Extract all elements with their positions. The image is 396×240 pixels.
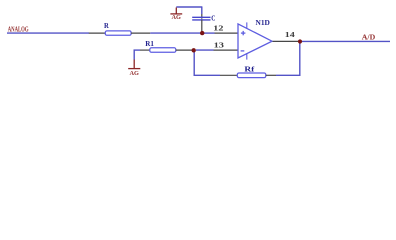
junction node pin13	[192, 48, 196, 52]
svg-text:AG: AG	[130, 70, 139, 77]
wire ANALOG input	[7, 32, 89, 34]
op-amp + input mark	[241, 31, 246, 35]
wire R to node	[150, 32, 202, 34]
junction node output	[298, 39, 302, 43]
power port AG bottom	[128, 60, 140, 69]
resistor R1	[150, 48, 176, 53]
resistor Rf	[237, 73, 265, 78]
svg-text:N1D: N1D	[256, 20, 270, 27]
pin 12 wire	[215, 32, 239, 34]
pin Rf.1	[220, 74, 237, 76]
wire R1 left corner	[134, 49, 141, 51]
pin R1.1	[140, 49, 150, 51]
pin Rf.2	[266, 74, 276, 76]
wire feedback bottom right	[276, 74, 301, 76]
pin 14 wire	[273, 40, 300, 42]
svg-text:C: C	[211, 15, 215, 23]
pin R.2	[131, 32, 150, 34]
pin R.1	[89, 32, 106, 34]
svg-text:13: 13	[214, 41, 225, 50]
wire feedback down from node 13	[193, 52, 195, 75]
pin C.1	[201, 14, 203, 17]
wire feedback up to output node	[299, 42, 301, 76]
wire capacitor drop	[201, 6, 203, 14]
op-amp V- stub	[246, 53, 248, 59]
pin 13 wire	[214, 49, 239, 51]
wire AG to capacitor top	[176, 6, 202, 8]
op-amp V+ stub	[246, 22, 248, 28]
resistor R	[105, 31, 131, 35]
svg-text:R1: R1	[145, 40, 154, 48]
power port AG top	[170, 8, 182, 14]
wire node to pin 13	[196, 49, 214, 51]
capacitor C	[192, 17, 210, 20]
wire R1 down to AG	[133, 50, 135, 60]
pin R1.2	[176, 49, 192, 51]
svg-text:R: R	[104, 22, 110, 30]
op-amp N1D triangle	[238, 24, 272, 58]
op-amp - input mark	[241, 50, 245, 52]
svg-text:A/D: A/D	[362, 34, 375, 42]
capacitor center crossing	[201, 17, 203, 20]
svg-text:12: 12	[213, 24, 224, 33]
svg-text:Rf: Rf	[244, 65, 255, 73]
wire node to pin 12	[202, 32, 215, 34]
svg-text:14: 14	[285, 30, 295, 39]
wire feedback bottom left	[194, 74, 221, 76]
wire output to A/D	[300, 40, 390, 42]
junction node pin12	[200, 31, 204, 35]
svg-text:AG: AG	[172, 14, 181, 21]
pin C.2	[201, 20, 203, 32]
